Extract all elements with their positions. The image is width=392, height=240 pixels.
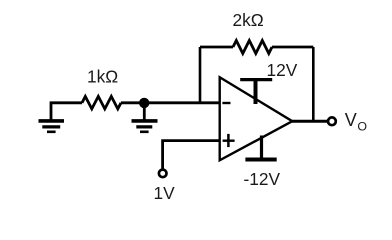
svg-text:-12V: -12V (244, 169, 281, 189)
svg-text:1V: 1V (154, 183, 176, 203)
svg-text:2kΩ: 2kΩ (233, 10, 264, 30)
svg-text:12V: 12V (267, 60, 298, 80)
wire feedback right vertical to output (312, 47, 315, 121)
op-amp U1 (220, 77, 293, 160)
terminal V1 (1V source terminal circle) (159, 170, 167, 178)
resistor R2 (233, 41, 272, 54)
svg-text:1kΩ: 1kΩ (87, 67, 118, 87)
wire feedback top left segment (200, 46, 233, 49)
ground GND1 (left input ground) (39, 103, 83, 132)
wire feedback left vertical (199, 47, 202, 103)
label Vo (output voltage) (345, 110, 368, 133)
wire non-inverting input to source (163, 141, 220, 169)
node junction dot (inverting input node) (139, 98, 149, 108)
power supply +12V (positive rail bar) (240, 80, 272, 104)
wire op-amp output (292, 120, 327, 123)
power supply -12V (negative rail bar) (245, 136, 276, 160)
svg-text:O: O (357, 119, 367, 133)
wire feedback top right segment (272, 46, 313, 49)
pin label plus (non-inverting input) (223, 134, 235, 147)
wire R1 to inverting input (121, 101, 220, 104)
ground GND2 (below junction node) (132, 103, 158, 132)
svg-text:V: V (345, 110, 357, 130)
terminal Vo (output terminal circle) (328, 117, 336, 125)
pin label minus (inverting input) (222, 102, 230, 104)
resistor R1 (82, 96, 121, 109)
